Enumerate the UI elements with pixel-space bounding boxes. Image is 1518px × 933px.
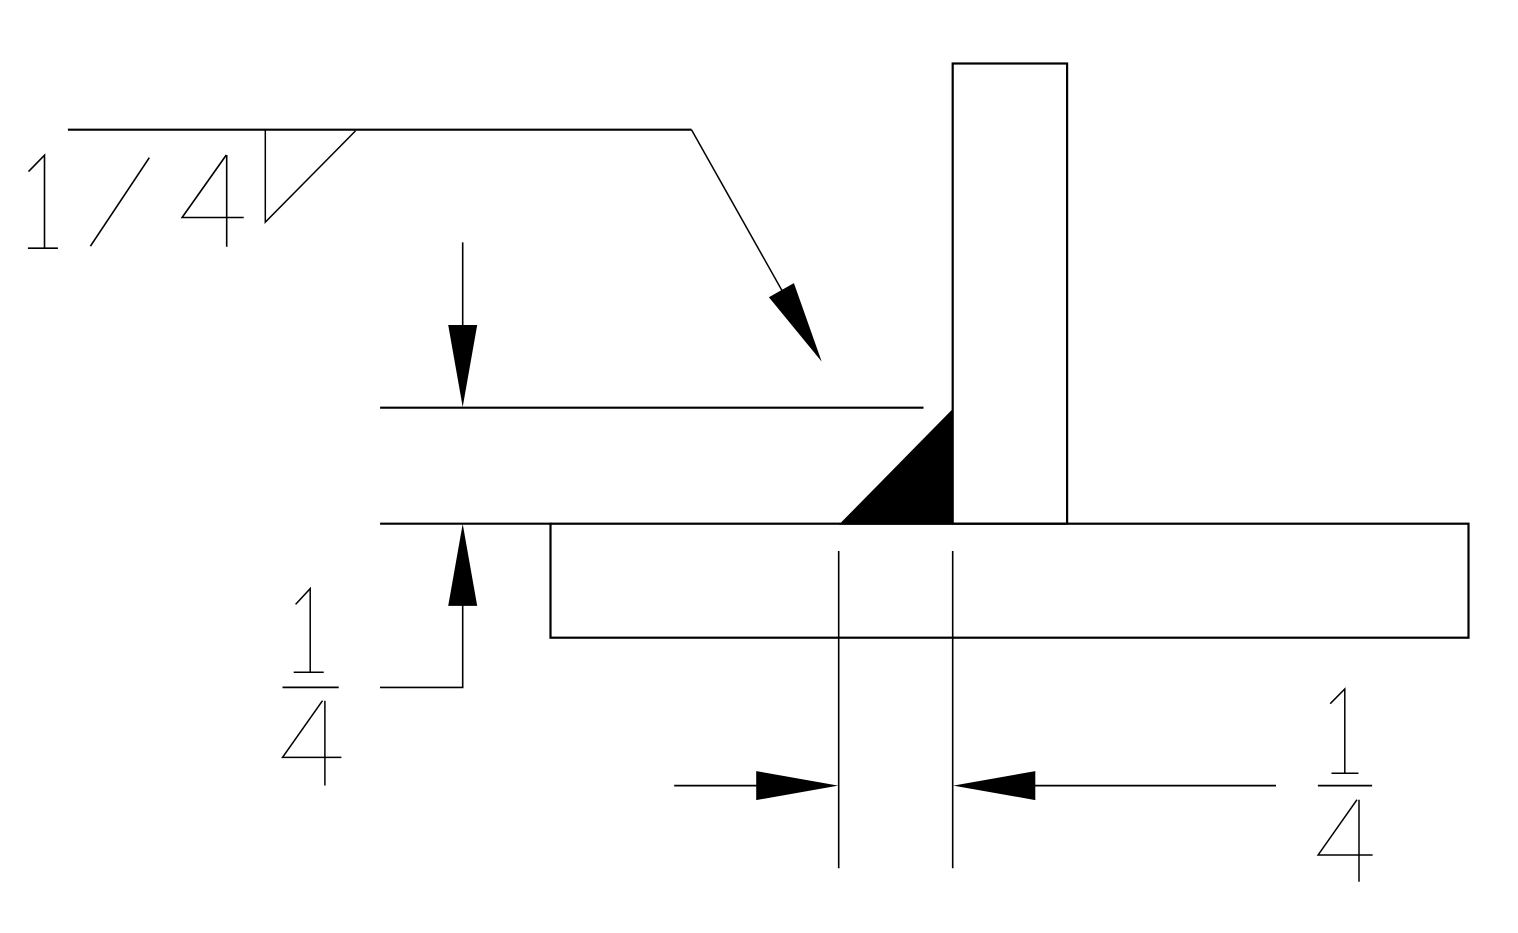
plate surface extension line — [380, 523, 552, 525]
right fraction bar — [1318, 785, 1372, 787]
vertical plate — [953, 64, 1067, 524]
weld size text slash — [90, 158, 149, 247]
leader line — [692, 130, 817, 351]
left fraction digit 1 — [294, 589, 324, 673]
right fraction digit 4 — [1318, 800, 1373, 882]
horizontal plate — [551, 524, 1469, 638]
bottom dimension left line — [674, 785, 760, 787]
vertical dimension upper arrowhead — [448, 325, 477, 407]
bottom dimension right line — [1031, 785, 1276, 787]
vertical dimension leader landing — [380, 686, 464, 688]
fillet weld (filled) — [839, 408, 954, 525]
left fraction digit 4 — [283, 701, 342, 786]
vertical dimension lower arrow tail — [462, 602, 464, 687]
weld symbol reference line — [68, 129, 692, 131]
vertical dimension upper arrow tail — [462, 242, 464, 330]
leader arrowhead — [769, 283, 822, 362]
bottom dimension left arrowhead — [756, 771, 838, 800]
weld size text 1/4 digit 1 — [28, 155, 58, 248]
right bottom extension line — [952, 551, 954, 868]
right fraction digit 1 — [1330, 689, 1358, 773]
fillet weld symbol triangle — [265, 130, 355, 223]
weld top surface extension line — [380, 407, 923, 409]
bottom dimension right arrowhead — [953, 771, 1035, 800]
vertical dimension lower arrowhead — [448, 524, 477, 606]
left fraction bar — [283, 686, 339, 688]
left bottom extension line — [838, 551, 840, 868]
weld size text digit 4 — [182, 155, 244, 247]
